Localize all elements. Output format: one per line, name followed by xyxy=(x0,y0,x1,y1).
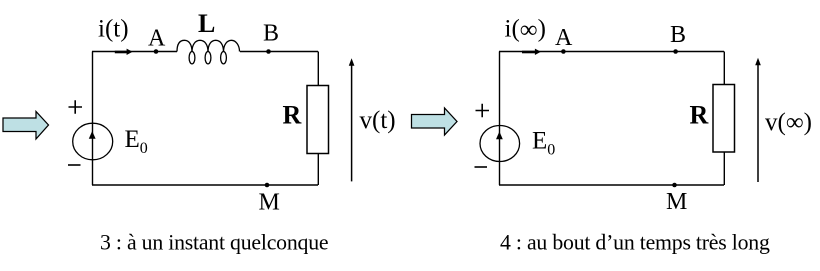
resistor R (right) xyxy=(713,85,735,153)
svg-text:4 : au bout d’un temps très lo: 4 : au bout d’un temps très long xyxy=(500,230,770,254)
svg-text:v(t): v(t) xyxy=(360,107,396,134)
svg-text:R: R xyxy=(690,101,709,130)
wire: left circuit top, inductor to node B to top-right corner xyxy=(240,51,318,53)
voltage arrow v(t) xyxy=(349,58,355,181)
wire: right circuit top xyxy=(499,51,724,53)
resistor R (left) xyxy=(307,86,329,154)
minus sign (right source) xyxy=(475,166,488,168)
current arrow i(inf) on wire xyxy=(522,49,541,55)
inductor L xyxy=(177,40,240,64)
voltage arrow v(inf) xyxy=(755,58,761,182)
node B (right) xyxy=(673,49,678,54)
svg-text:M: M xyxy=(666,189,687,215)
svg-text:B: B xyxy=(670,22,686,48)
source E0 (left) arrow inside xyxy=(89,131,96,139)
node M (left) xyxy=(265,183,270,188)
wire: left circuit bottom xyxy=(92,184,318,186)
svg-text:L: L xyxy=(198,9,215,38)
source E0 (right) circle xyxy=(480,126,520,162)
wire: left circuit left vertical through source xyxy=(92,52,94,186)
current arrow i(t) on wire xyxy=(115,49,133,55)
plus sign (right source) xyxy=(476,104,490,117)
svg-text:v(∞): v(∞) xyxy=(765,109,812,136)
node A (right) xyxy=(561,49,566,54)
wire: right circuit bottom xyxy=(499,184,724,186)
svg-text:R: R xyxy=(283,100,302,129)
block arrow (right figure indicator) xyxy=(412,108,458,135)
source E0 (right) arrow inside xyxy=(496,132,503,140)
node A (left) xyxy=(154,49,159,54)
svg-text:M: M xyxy=(259,190,280,216)
wire: left circuit top, source to inductor xyxy=(92,51,177,53)
wire: right circuit right vertical above resistor xyxy=(723,52,725,85)
svg-text:3 : à un instant quelconque: 3 : à un instant quelconque xyxy=(100,231,328,255)
wire: right circuit left vertical through source xyxy=(499,52,501,186)
wire: right circuit right vertical below resistor xyxy=(723,152,725,185)
svg-text:B: B xyxy=(263,20,279,46)
source E0 (left) circle xyxy=(73,123,113,160)
node B (left) xyxy=(266,49,271,54)
wire: left circuit right vertical below resistor xyxy=(317,154,319,186)
block arrow (left figure indicator) xyxy=(3,112,49,140)
svg-text:A: A xyxy=(148,25,166,51)
minus sign (left source) xyxy=(68,164,81,166)
svg-text:i(t): i(t) xyxy=(98,16,129,43)
plus sign (left source) xyxy=(69,100,83,113)
wire: left circuit right vertical above resistor xyxy=(317,52,319,86)
svg-text:A: A xyxy=(555,25,573,51)
svg-text:i(∞): i(∞) xyxy=(505,16,546,44)
node M (right) xyxy=(672,183,677,188)
